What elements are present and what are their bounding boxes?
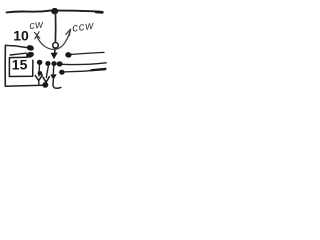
wire pin A tail to bottom wire [38, 81, 40, 86]
wire right line 3 [65, 70, 105, 72]
wire right line 3 dark overlap stroke [91, 69, 105, 70]
node right line 3 start dot [59, 70, 65, 75]
wire terminal 15 lead [10, 53, 26, 55]
arrowhead rotation arrow left (x mark) [34, 32, 39, 39]
wire bottom return [5, 85, 43, 86]
arrowhead pin C filled down [50, 74, 57, 80]
wire right line 2 [63, 63, 107, 65]
wire pin C stem [52, 66, 54, 74]
node top junction [51, 8, 58, 14]
node right line 2 start dot [57, 61, 63, 66]
wire top bus right segment [58, 11, 103, 13]
arrowhead rotation arrow right chevron [66, 29, 71, 36]
node connector pin A top dot [37, 60, 43, 65]
wire pin B stem [46, 66, 48, 77]
rotation arrow arc cw to ccw [37, 31, 71, 50]
svg-text:15: 15 [12, 56, 28, 72]
wire top bus left segment [7, 10, 52, 12]
node wiper open circle [53, 43, 59, 49]
wire pin C tail hook [53, 80, 61, 88]
node terminal 15 wire-end blob [25, 51, 34, 59]
wire top bus right end thickening [96, 11, 102, 14]
node pin A bead [38, 71, 43, 75]
svg-text:10: 10 [13, 28, 29, 44]
wire pin A stem [38, 65, 41, 76]
wire potentiometer wiper vertical [54, 14, 56, 43]
svg-text:cw: cw [29, 18, 45, 32]
wire left vertical return [4, 45, 6, 85]
arrowhead pin A chevron down [35, 75, 42, 81]
arrowhead pin B chevron down [43, 77, 49, 83]
node connector pin B top dot [45, 61, 50, 66]
node right line 1 start dot [65, 52, 72, 58]
wire terminal 10 lead [6, 45, 27, 47]
node connector pin C top dot [51, 61, 56, 66]
wire wiper stem below circle [54, 48, 57, 53]
node bottom junction dot [42, 82, 48, 88]
node terminal 10 wire-end blob [26, 44, 34, 51]
arrowhead wiper pointing down [51, 53, 58, 60]
terminal block 15 box [9, 57, 33, 76]
wire right line 1 [72, 52, 105, 54]
